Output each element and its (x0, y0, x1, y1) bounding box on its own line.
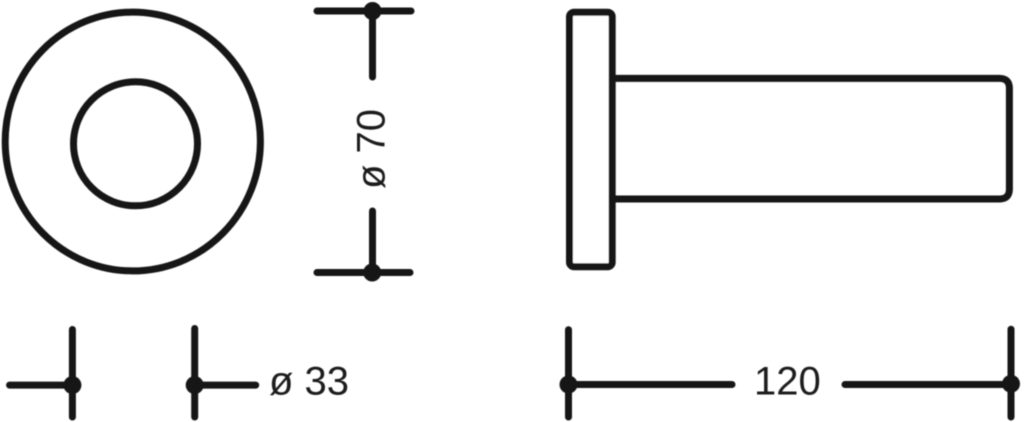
dimension 120: right segment (845, 381, 1011, 388)
dimension 120: left segment (569, 381, 733, 388)
dimension ø33: right extension line (191, 329, 198, 418)
dimension 120: left dot (560, 376, 578, 394)
dimension ø33: right tail (195, 382, 256, 389)
dimension ø33: left dot (63, 376, 81, 394)
dimension ø70: lower vertical segment (369, 211, 376, 273)
dimension 120: right extension line (1008, 329, 1015, 417)
outer circle (front view, ø70 face) (5, 12, 260, 271)
dimension ø33: right dot (186, 376, 204, 394)
svg-text:ø 33: ø 33 (269, 360, 349, 404)
dimension 120: left extension line (565, 330, 572, 417)
dimension ø70: bottom tick (317, 269, 410, 276)
svg-text:ø 70: ø 70 (350, 109, 394, 189)
dimension ø70: upper vertical segment (369, 11, 376, 77)
svg-text:120: 120 (754, 360, 821, 404)
dimension ø70: top dot (364, 2, 382, 20)
inner circle (front view, ø33 boss) (74, 82, 198, 206)
dimension ø70: bottom dot (363, 264, 381, 282)
dimension ø33: left tail (10, 382, 73, 389)
dimension ø33: left extension line (69, 330, 76, 418)
side view: cylinder body (120 long) (612, 78, 1009, 199)
side view: wall flange plate (570, 12, 613, 267)
dimension ø70: top tick (317, 8, 411, 15)
dimension 120: right dot (1002, 375, 1020, 393)
